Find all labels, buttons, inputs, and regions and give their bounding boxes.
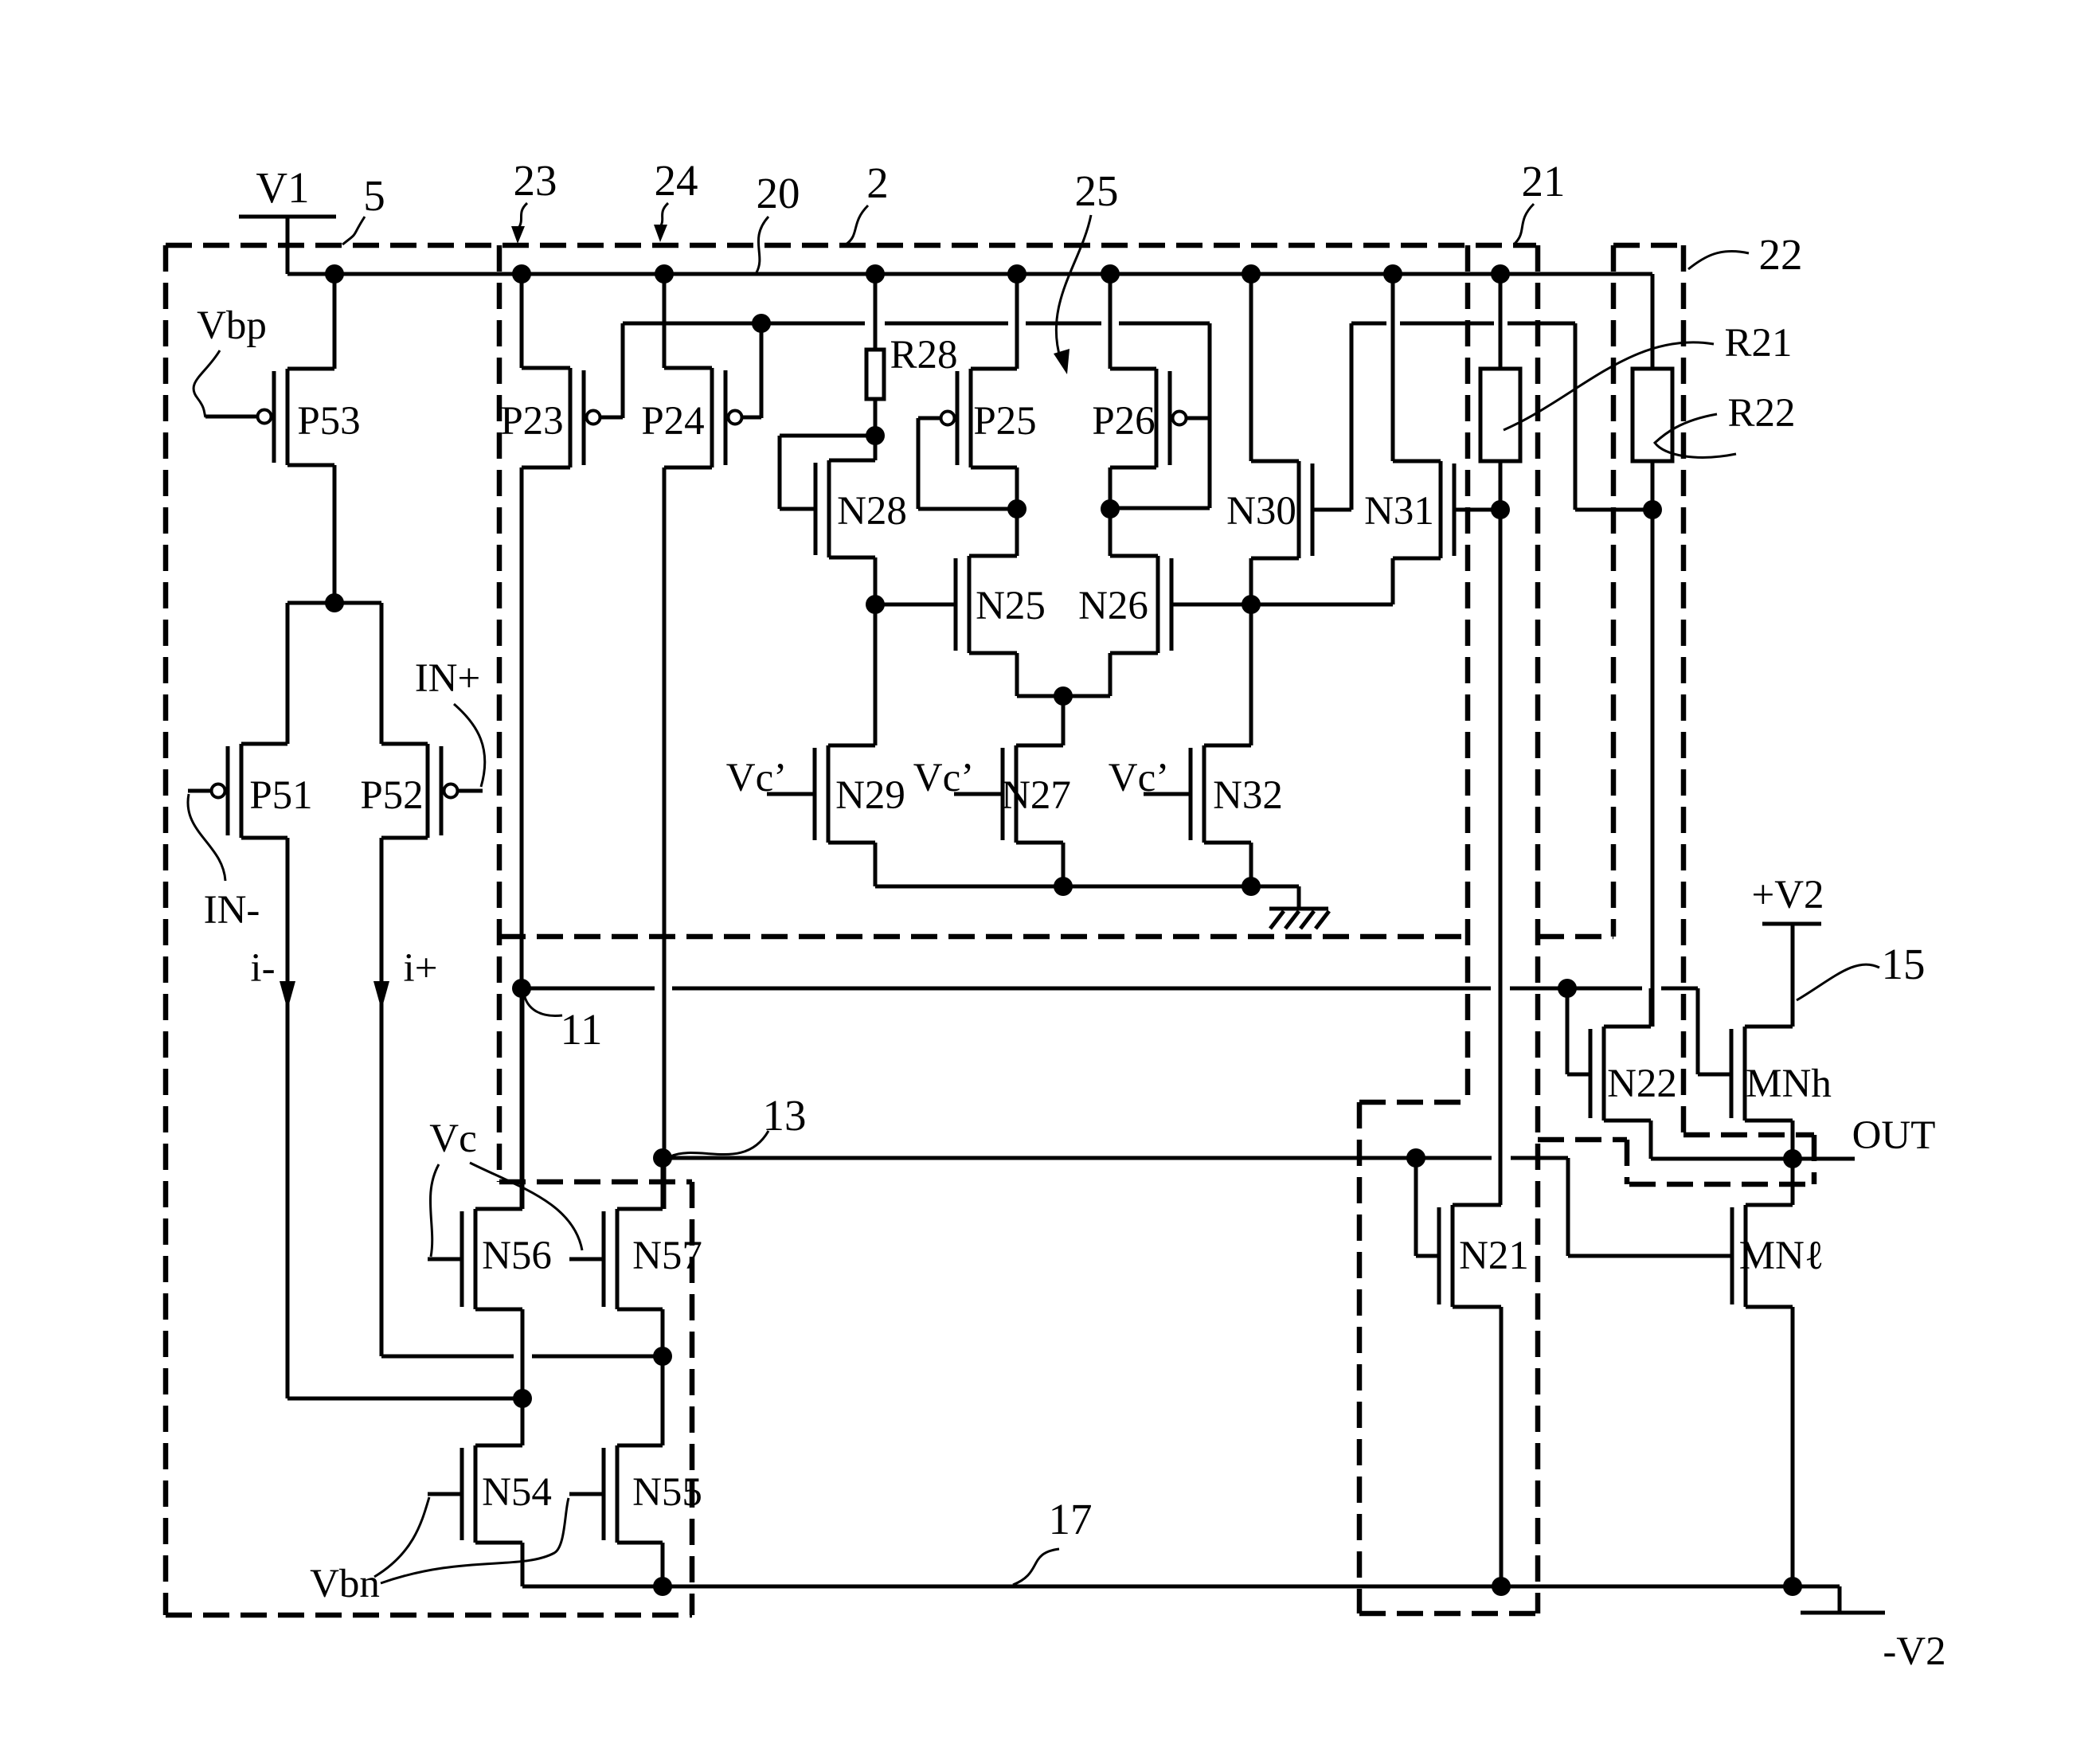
wire gate bus segment G [1507,322,1575,326]
transistor N56 [428,1209,552,1309]
R21 leader [1504,342,1714,430]
transistor MNh [1731,1027,1832,1121]
svg-text:i-: i- [250,946,275,991]
dashed box 15 top edge [1683,1132,1814,1138]
wire node 13 net [663,1158,1731,1256]
transistor P24 [641,368,761,467]
dashed box 23 left edge (box 5 right edge upper) [497,245,502,1182]
wire N57 source drop [661,1309,665,1356]
wire gate bus segment A [623,322,865,326]
wire P23 drain column to node 11 and N56 [520,467,524,1209]
wire N29 drain riser [874,604,878,745]
20 leader [757,217,768,272]
node gnd N32 [1242,877,1261,896]
dashed box 5 left edge [163,245,169,1615]
wire P26 gate riser to bus and node D [1110,323,1210,508]
node rail-P24 [655,264,674,284]
wire N28 source to node B [874,557,878,604]
wire N21 gate riser [1416,1158,1439,1256]
node 17 N21 [1492,1577,1511,1596]
wire top rail net 20 [287,272,1652,276]
wire N31 drain riser [1391,274,1395,461]
22 leader [1688,251,1749,269]
wire N56 source column [521,1309,525,1445]
wire N55 drain riser [661,1356,665,1445]
node rail-P26 [1101,264,1120,284]
svg-text:+V2: +V2 [1751,873,1824,917]
wire node C to N25 drain [1015,509,1019,556]
dashed box 22 top edge [1613,243,1683,248]
transistor N29 [767,745,905,843]
dashed box 5 top edge (shared top line of boxes 5, 23, 24, 20, 2, 21) [166,243,1536,248]
svg-text:V1: V1 [256,163,309,212]
wire P51 source riser [286,603,290,744]
transistor N21 [1439,1205,1529,1307]
dashed box 21 jog horizontal [1359,1100,1468,1105]
wire N26 source drop [1063,653,1110,696]
dashed box 2 bottom edge [499,934,1468,940]
svg-text:OUT: OUT [1852,1113,1936,1158]
wire R21 bottom to node G [1499,461,1503,510]
2 leader [846,205,868,244]
wire OUT net [1651,1157,1855,1161]
wire N54 source drop [521,1543,525,1586]
node rail-N30 [1242,264,1261,284]
svg-text:R28: R28 [890,333,957,377]
wire P24 source riser [663,274,667,368]
svg-text:21: 21 [1522,157,1566,205]
node D P26 drain [1101,499,1120,518]
svg-text:Vc’: Vc’ [913,756,974,800]
svg-text:P25: P25 [973,399,1036,444]
svg-text:N25: N25 [976,584,1046,628]
wire N57 drain riser [661,1158,665,1209]
transistor N28 [815,460,907,557]
wire N28 gate loop [780,436,875,509]
node B [866,595,885,614]
wire N30 source drop to node F [1249,558,1253,604]
wire N55 source drop [661,1543,665,1586]
wire gate bus segment D [1119,322,1210,326]
node rail-R21 [1491,264,1510,284]
node 13 N21 gate tap [1406,1148,1425,1168]
wire N29 source drop [874,843,878,886]
wire node B to N25 gate [875,603,956,607]
transistor N31 [1364,461,1454,558]
wire 17 negative rail [522,1586,1840,1613]
wire gate bus segment B [885,322,1008,326]
transistor N55 [569,1445,702,1543]
dashed box 21 left edge lower [1357,1102,1363,1613]
svg-text:P24: P24 [641,399,704,444]
node 13 junction [653,1148,672,1168]
wire P23 source riser [520,274,524,368]
dashed box 22 left edge [1611,245,1617,937]
wire N26 gate to node F [1171,603,1251,607]
wire P24 drain column to node 13 and N57 [663,467,667,1209]
svg-text:N28: N28 [837,489,907,534]
transistor P25 [918,369,1037,467]
svg-text:N22: N22 [1607,1062,1677,1106]
svg-text:17: 17 [1049,1495,1093,1543]
transistor N32 [1144,745,1283,843]
svg-text:23: 23 [514,156,557,205]
wire N30 gate to bus riser [1312,323,1351,510]
wire P24 gate riser [760,323,764,418]
resistor R21 [1480,369,1520,461]
svg-text:N30: N30 [1226,489,1296,534]
Vbn leader to N55 [381,1498,569,1583]
arrow i+ current [373,981,389,1010]
transistor N27 [954,745,1071,843]
5 leader [342,217,365,244]
node rail-P23 [512,264,531,284]
wire N22 gate riser [1567,988,1590,1074]
dashed box 5 jog horizontal [499,1179,692,1185]
svg-text:25: 25 [1075,166,1119,215]
wire P53 drain to tail node [333,465,337,603]
transistor N30 [1226,461,1312,558]
svg-text:11: 11 [561,1005,603,1054]
dashed box 15 right edge [1812,1135,1817,1184]
svg-text:24: 24 [655,156,698,205]
transistor N26 [1078,556,1171,653]
node i+ join [653,1347,672,1366]
Vbp leader [194,350,220,417]
svg-text:20: 20 [757,169,800,217]
transistor P52 [360,744,483,838]
Vc leader to N57 [470,1163,582,1250]
svg-text:Vc: Vc [429,1117,476,1161]
svg-text:N26: N26 [1078,584,1148,628]
dashed box 15 bottom edge [1629,1182,1814,1187]
wire N27 drain riser [1062,696,1066,745]
wire node 11 net [522,988,1730,1074]
arrow label 23 [518,203,527,229]
wire rail corner to R22 [1651,274,1655,369]
svg-text:i+: i+ [404,946,438,991]
svg-text:N57: N57 [632,1234,702,1278]
wire diff tail tee [287,601,381,605]
svg-text:P53: P53 [297,399,360,444]
svg-text:N29: N29 [835,773,905,818]
svg-text:2: 2 [866,158,889,207]
wire N27 source drop [1062,843,1066,886]
dashed box 22 right edge [1681,245,1687,1132]
wire R22 bottom to node H [1651,461,1655,510]
transistor N22 [1590,1027,1677,1121]
wire P25 gate-drain loop [918,418,1017,509]
node 17 N55 [653,1577,672,1596]
arrow label 25 [1056,215,1091,360]
wire node F to N31 source [1251,558,1393,604]
node OUT [1783,1149,1802,1168]
R22 leader [1655,414,1736,457]
svg-text:MNℓ: MNℓ [1739,1234,1824,1278]
node C P25 drain [1007,499,1026,518]
Vc leader to N56 [430,1164,439,1257]
wire R28 to node A [874,399,878,436]
wire N22 source to OUT [1649,1121,1653,1159]
svg-text:IN-: IN- [204,888,260,933]
transistor P53 [205,369,361,465]
wire rail to R28 [874,274,878,350]
svg-text:N56: N56 [482,1234,552,1278]
arrow i- current [280,981,295,1010]
wire N31 gate to R21 bottom [1454,508,1500,512]
17 leader [1013,1549,1059,1585]
wire MNl source drop [1791,1307,1795,1586]
Vbn leader to N54 [374,1497,429,1577]
dashed box 15 upper-left horizontal [1538,1137,1627,1143]
svg-text:15: 15 [1882,940,1926,988]
node E sources N25 N26 [1054,686,1073,706]
dashed box 21 left edge upper [1465,245,1471,1102]
transistor P26 [1092,369,1210,467]
svg-text:R21: R21 [1724,321,1792,366]
wire N56 drain riser [521,988,525,1209]
node G R21 bottom [1491,500,1510,519]
dashed box 22 bottom jog [1538,934,1613,940]
svg-text:P23: P23 [500,399,563,444]
wire N21 drain column [1499,510,1503,1205]
node gnd N27 [1054,877,1073,896]
wire N32 source drop [1249,843,1253,886]
dashed box 21 right edge [1535,245,1541,1613]
transistor N54 [428,1445,552,1543]
svg-text:N54: N54 [482,1470,552,1515]
wire N32 drain riser [1249,604,1253,745]
svg-text:N32: N32 [1213,773,1283,818]
node H R22 bottom [1643,500,1662,519]
wire V1 lead [286,217,290,274]
dashed box 5 bottom edge [166,1613,692,1618]
wire ground bus [875,886,1299,909]
transistor P51 [188,744,313,838]
svg-text:N55: N55 [632,1470,702,1515]
svg-text:P26: P26 [1092,399,1155,444]
wire P53 source riser [333,274,337,369]
node A R28 bottom [866,426,885,445]
svg-text:Vc’: Vc’ [1109,756,1169,800]
svg-text:22: 22 [1759,230,1803,279]
svg-text:Vc’: Vc’ [726,756,787,800]
svg-text:Vbp: Vbp [197,303,267,348]
wire N22 drain riser [1649,988,1653,1027]
svg-text:Vbn: Vbn [310,1562,380,1606]
wire MNl drain riser [1791,1159,1795,1205]
IN+ leader [454,704,485,787]
node i- join [513,1389,532,1408]
+V2 terminal bar [1762,922,1821,926]
21 leader [1515,204,1534,244]
transistor N25 [956,556,1046,653]
svg-text:N27: N27 [1001,773,1071,818]
svg-text:5: 5 [363,171,385,220]
resistor R28 [866,350,884,399]
wire R21 feed [1499,274,1503,369]
svg-text:P51: P51 [249,773,312,818]
wire P26 drain to node D [1109,467,1113,509]
wire MNh source to OUT [1791,1121,1795,1159]
node rail-N31 [1383,264,1402,284]
wire R22-N22 drain column [1651,510,1655,1027]
resistor R22 [1633,369,1672,461]
dashed box 15 left jog vertical [1625,1140,1630,1184]
wire i+ branch of P52 drain [381,838,663,1356]
node rail-P53 [325,264,344,284]
wire P26 source riser [1109,274,1113,369]
dashed box 5 right edge lower [690,1182,695,1615]
-V2 terminal bar [1801,1611,1885,1615]
wire bus drop to R22 bottom [1575,323,1652,510]
wire P23 gate riser [621,323,625,418]
node 11 N22 gate tap [1558,979,1577,998]
wire P52 source riser [380,603,384,744]
transistor P23 [500,368,623,467]
svg-text:N21: N21 [1459,1234,1529,1278]
node F [1242,595,1261,614]
wire N25 source drop [1017,653,1063,696]
ground symbol [1269,909,1329,929]
wire node D to N26 drain [1109,509,1113,556]
wire N21 source drop [1500,1307,1504,1586]
wire N30 drain riser [1249,274,1253,461]
transistor N57 [569,1209,702,1309]
wire gate bus segment E [1351,322,1386,326]
wire P25 drain to node C [1015,467,1019,509]
13 leader [671,1131,768,1156]
svg-text:-V2: -V2 [1883,1629,1945,1674]
node rail-R28 [866,264,885,284]
wire P25 source riser [1015,274,1019,369]
arrow label 24 [659,203,668,228]
node rail-P25 [1007,264,1026,284]
IN- leader [188,794,225,881]
V1 terminal bar [239,215,336,219]
dashed box 21 bottom edge [1359,1611,1538,1617]
wire i- branch of P51 drain [287,838,522,1398]
wire gate bus segment F [1400,322,1494,326]
node diff tail [325,593,344,612]
node gate bus P24 [752,314,771,333]
svg-text:13: 13 [763,1091,807,1140]
transistor MNl [1732,1205,1793,1307]
svg-text:P52: P52 [360,773,423,818]
node 17 MNl [1783,1577,1802,1596]
svg-text:MNh: MNh [1746,1062,1832,1106]
node 11 junction [512,979,531,998]
wire MNh drain riser to +V2 [1791,924,1795,1027]
wire N28 drain riser [874,436,878,460]
15 leader [1797,964,1879,1000]
svg-text:IN+: IN+ [415,656,481,701]
wire gate bus segment C [1026,322,1101,326]
svg-text:R22: R22 [1727,391,1795,436]
11 leader [524,994,562,1016]
svg-text:N31: N31 [1364,489,1434,534]
